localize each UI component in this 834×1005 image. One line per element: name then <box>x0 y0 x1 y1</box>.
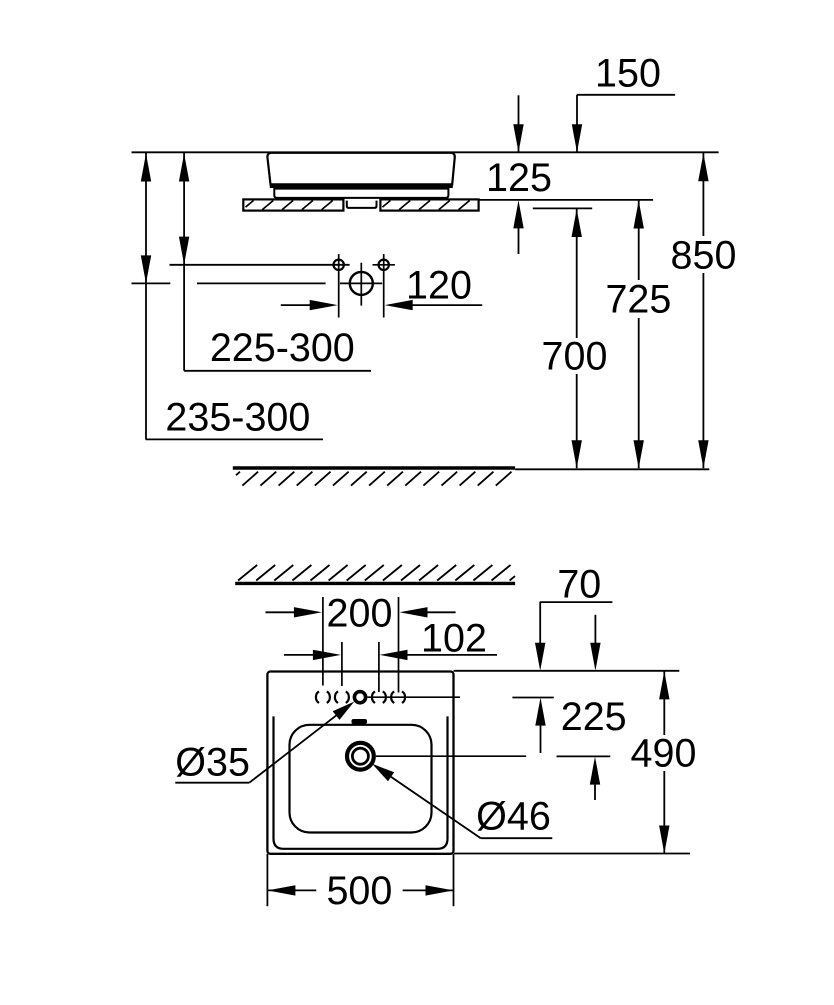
side view: drain outlet circle <box>350 272 373 295</box>
side view: right bracket/shelf slab (hatched) <box>380 199 478 210</box>
side view: drain trap cover between slabs <box>347 201 377 208</box>
svg-text:225-300: 225-300 <box>210 326 355 370</box>
dimension 150: leader line <box>577 94 675 96</box>
label Ø35 leader diagonal with arrow to tap hole <box>249 709 344 783</box>
dimension 102: left segment with arrow <box>284 654 313 656</box>
dimension 235-300: vertical line with arrows <box>145 153 147 440</box>
svg-text:Ø46: Ø46 <box>476 795 551 839</box>
svg-text:725: 725 <box>605 277 671 321</box>
svg-text:850: 850 <box>671 234 737 278</box>
svg-text:102: 102 <box>421 617 487 661</box>
dimension 235-300: leader underline <box>146 438 323 440</box>
label Ø35 leader underline <box>175 782 249 784</box>
dimension 225: upper arrow to basin rear edge <box>594 615 596 644</box>
side view: floor line thin continuation <box>515 468 709 470</box>
dimension 150: left vertical line with arrow <box>518 95 520 152</box>
dimension 125: lower arrow to shelf top <box>518 228 520 254</box>
side view: shelf top level extension line <box>479 199 653 201</box>
svg-text:70: 70 <box>557 563 601 607</box>
dimension 200: left segment with arrow <box>266 611 295 613</box>
dimension 200: right segment with arrow <box>427 611 456 613</box>
dimension 500: line left segment with arrow <box>267 889 316 891</box>
dimension 500: left extension line <box>266 854 268 906</box>
side view: right supply hole horizontal tick <box>373 264 395 266</box>
top view: basin outer outline <box>267 672 453 854</box>
side view: drain level line <box>197 282 326 284</box>
top view: optional hole position 2 (broken circle) <box>335 691 338 703</box>
dimension 500: line right segment with arrow <box>403 889 454 891</box>
svg-text:200: 200 <box>327 591 393 635</box>
svg-text:500: 500 <box>326 869 392 913</box>
dimension 225: drain level tick <box>557 755 611 757</box>
side view: basin bottom thick edge <box>270 185 453 188</box>
top view: wall line (thick) <box>235 582 515 585</box>
dimension 102: right segment with arrow <box>408 654 498 656</box>
svg-text:125: 125 <box>486 156 552 200</box>
side view: floor hatch strokes <box>236 472 240 476</box>
side view: basin base pedestal <box>274 189 448 198</box>
dimension 500: right extension line <box>453 854 455 906</box>
svg-text:235-300: 235-300 <box>165 396 310 440</box>
top view: drain centerline to the right <box>376 755 526 757</box>
dimension 850: vertical line with arrows <box>702 153 704 236</box>
top view: basin rim inner outline <box>274 716 448 848</box>
dimension 120: right segment with arrow <box>412 304 483 306</box>
dimension 225-300: vertical line with arrows <box>183 153 185 371</box>
dimension 70: upper arrow to basin rear edge <box>539 602 541 644</box>
top view: optional hole position 1 (broken circle) <box>316 691 319 703</box>
svg-text:225: 225 <box>561 695 627 739</box>
top view: hole 4 extension line <box>378 642 380 692</box>
label Ø46 leader underline <box>481 837 553 839</box>
dimension 70: lower arrow to holes centerline <box>535 698 545 726</box>
dimension 120: left segment with arrow <box>281 304 311 306</box>
dimension 225-300: leader underline <box>184 370 371 372</box>
svg-text:Ø35: Ø35 <box>175 741 250 785</box>
top view: hole 1 extension line <box>322 597 324 686</box>
side view: right supply hole vertical centerline <box>383 254 385 317</box>
top view: basin rear edge extension line <box>454 670 680 672</box>
dimension 70: holes level tick <box>512 697 553 699</box>
top view: tap hole Ø35 (bold circle) <box>354 692 365 703</box>
top view: optional hole position 5 (broken circle) <box>391 691 394 703</box>
side view: shelf bottom level extension tick (700) <box>533 207 592 209</box>
side view: drain circle horizontal centerline <box>340 282 382 284</box>
dimension 700: vertical line with arrows <box>576 208 578 338</box>
side view: drain level tick at 235-300 line <box>132 282 171 284</box>
dimension 70: leader line <box>540 601 613 603</box>
label Ø46 leader diagonal with arrow to drain <box>380 770 481 839</box>
top view: holes centerline <box>367 696 460 698</box>
dimension 150: right vertical line with arrow <box>576 95 578 153</box>
top view: hole 2 extension line <box>341 642 343 686</box>
side view: right supply hole circle <box>379 260 389 270</box>
top view: wall hatch strokes <box>238 565 257 581</box>
side view: supply holes level line <box>170 264 350 266</box>
top view: hole 5 extension line <box>398 597 400 693</box>
dimension 225: lower arrow to drain centerline <box>590 757 600 785</box>
top view: drain outer circle <box>347 743 374 770</box>
svg-text:150: 150 <box>595 52 661 96</box>
dimension 490: vertical line with arrows <box>663 671 665 735</box>
top view: drain inner circle <box>352 748 368 764</box>
top view: overflow slot mark <box>352 719 368 724</box>
side view: left bracket/shelf slab (hatched) <box>243 199 343 210</box>
side view: left supply hole vertical centerline <box>338 254 340 317</box>
svg-text:490: 490 <box>631 732 697 776</box>
dimension 725: vertical line with arrows <box>638 200 640 280</box>
side view: washbasin body <box>267 153 454 185</box>
side view: left supply hole circle <box>334 260 344 270</box>
side view: drain circle vertical centerline <box>360 263 362 306</box>
side view: floor line (thick hatched part) <box>233 466 515 469</box>
top view: basin front edge extension line <box>454 853 690 855</box>
svg-text:700: 700 <box>542 334 608 378</box>
side view: wall/rim reference line (850 top) <box>132 151 719 153</box>
svg-text:120: 120 <box>406 263 472 307</box>
top view: optional hole position 4 (broken circle) <box>372 691 375 703</box>
top view: basin bowl outline <box>290 725 432 833</box>
